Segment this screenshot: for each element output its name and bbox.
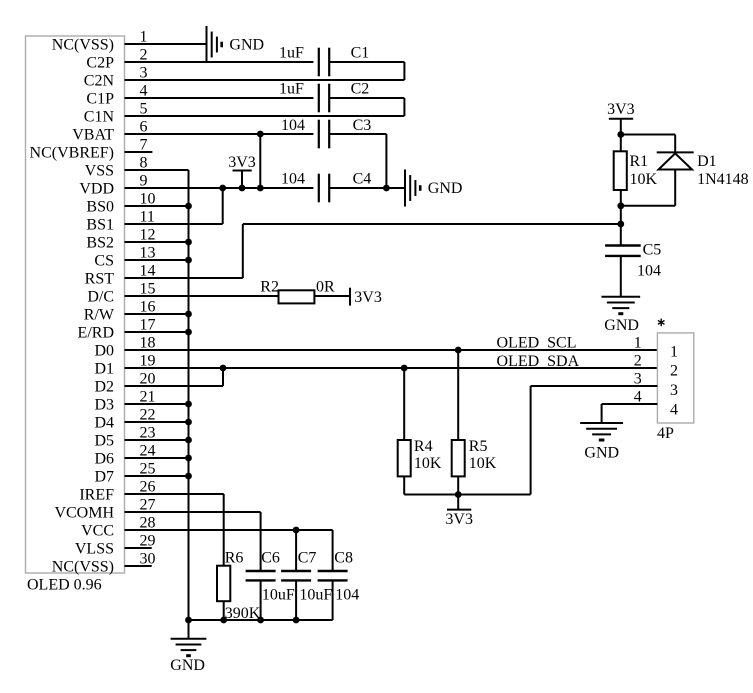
svg-text:GND: GND xyxy=(428,180,463,197)
svg-text:21: 21 xyxy=(140,389,156,406)
svg-text:C3: C3 xyxy=(353,117,372,134)
svg-text:D1: D1 xyxy=(94,360,114,377)
svg-text:C2: C2 xyxy=(351,81,370,98)
svg-text:C2P: C2P xyxy=(86,54,114,71)
svg-text:26: 26 xyxy=(140,479,156,496)
svg-text:10K: 10K xyxy=(414,455,442,472)
svg-text:1: 1 xyxy=(634,335,642,352)
svg-text:10: 10 xyxy=(140,191,156,208)
svg-text:18: 18 xyxy=(140,335,156,352)
svg-text:NC(VSS): NC(VSS) xyxy=(52,558,114,575)
svg-text:OLED SCL: OLED SCL xyxy=(497,335,577,352)
svg-text:VBAT: VBAT xyxy=(72,126,114,143)
svg-text:3V3: 3V3 xyxy=(607,101,635,118)
svg-text:2: 2 xyxy=(634,353,642,370)
svg-text:D5: D5 xyxy=(94,432,114,449)
svg-text:1: 1 xyxy=(670,343,678,360)
svg-text:GND: GND xyxy=(229,37,264,54)
svg-text:CS: CS xyxy=(94,252,114,269)
svg-text:24: 24 xyxy=(140,443,156,460)
svg-text:28: 28 xyxy=(140,515,156,532)
svg-text:GND: GND xyxy=(170,657,205,674)
svg-text:VDD: VDD xyxy=(79,180,114,197)
svg-text:1uF: 1uF xyxy=(279,45,304,62)
svg-text:OLED 0.96: OLED 0.96 xyxy=(27,577,102,594)
svg-text:1: 1 xyxy=(140,29,148,46)
svg-text:7: 7 xyxy=(140,137,148,154)
svg-text:1N4148: 1N4148 xyxy=(697,171,749,188)
svg-text:19: 19 xyxy=(140,353,156,370)
svg-text:3: 3 xyxy=(670,382,678,399)
svg-text:C6: C6 xyxy=(261,550,280,567)
svg-text:NC(VBREF): NC(VBREF) xyxy=(30,144,114,161)
svg-text:C5: C5 xyxy=(643,242,662,259)
svg-text:10uF: 10uF xyxy=(262,587,295,604)
svg-text:25: 25 xyxy=(140,461,156,478)
svg-text:D6: D6 xyxy=(94,450,114,467)
svg-text:C4: C4 xyxy=(353,171,372,188)
svg-text:8: 8 xyxy=(140,155,148,172)
svg-text:13: 13 xyxy=(140,245,156,262)
svg-text:5: 5 xyxy=(140,101,148,118)
svg-text:NC(VSS): NC(VSS) xyxy=(52,36,114,53)
svg-text:14: 14 xyxy=(140,263,156,280)
svg-text:20: 20 xyxy=(140,371,156,388)
svg-text:3V3: 3V3 xyxy=(228,154,256,171)
svg-text:D/C: D/C xyxy=(87,288,114,305)
svg-text:15: 15 xyxy=(140,281,156,298)
svg-text:VLSS: VLSS xyxy=(75,540,114,557)
svg-text:D2: D2 xyxy=(94,378,114,395)
svg-text:4: 4 xyxy=(140,83,148,100)
svg-text:D0: D0 xyxy=(94,342,114,359)
svg-text:OLED SDA: OLED SDA xyxy=(497,353,580,370)
svg-text:16: 16 xyxy=(140,299,156,316)
svg-text:R1: R1 xyxy=(630,153,649,170)
svg-text:10K: 10K xyxy=(469,455,497,472)
svg-text:9: 9 xyxy=(140,173,148,190)
svg-text:1uF: 1uF xyxy=(279,81,304,98)
svg-text:D4: D4 xyxy=(94,414,114,431)
svg-text:R6: R6 xyxy=(225,550,244,567)
svg-text:30: 30 xyxy=(140,551,156,568)
svg-text:C1: C1 xyxy=(351,45,370,62)
svg-text:4: 4 xyxy=(634,389,642,406)
svg-text:C1N: C1N xyxy=(84,108,115,125)
svg-text:3V3: 3V3 xyxy=(445,511,473,528)
svg-text:4: 4 xyxy=(670,402,678,419)
svg-text:R2: R2 xyxy=(260,279,279,296)
svg-text:R5: R5 xyxy=(469,438,488,455)
svg-text:3V3: 3V3 xyxy=(354,289,382,306)
svg-text:D7: D7 xyxy=(94,468,114,485)
svg-text:R4: R4 xyxy=(414,438,433,455)
svg-text:C1P: C1P xyxy=(86,90,114,107)
svg-text:104: 104 xyxy=(335,587,359,604)
svg-text:R/W: R/W xyxy=(84,306,115,323)
svg-text:D3: D3 xyxy=(94,396,114,413)
svg-text:0R: 0R xyxy=(316,279,335,296)
svg-text:BS1: BS1 xyxy=(86,216,114,233)
svg-text:C8: C8 xyxy=(334,550,353,567)
svg-text:104: 104 xyxy=(281,117,305,134)
svg-text:BS0: BS0 xyxy=(86,198,114,215)
svg-text:D1: D1 xyxy=(697,153,717,170)
svg-text:BS2: BS2 xyxy=(86,234,114,251)
svg-text:4P: 4P xyxy=(657,425,674,442)
svg-text:C2N: C2N xyxy=(84,72,115,89)
svg-text:29: 29 xyxy=(140,533,156,550)
svg-text:2: 2 xyxy=(670,363,678,380)
svg-text:VSS: VSS xyxy=(85,162,114,179)
svg-text:22: 22 xyxy=(140,407,156,424)
svg-text:GND: GND xyxy=(604,317,639,334)
svg-text:10K: 10K xyxy=(630,171,658,188)
svg-text:E/RD: E/RD xyxy=(78,324,114,341)
svg-text:3: 3 xyxy=(634,371,642,388)
svg-text:GND: GND xyxy=(584,444,619,461)
svg-text:23: 23 xyxy=(140,425,156,442)
svg-text:17: 17 xyxy=(140,317,156,334)
svg-text:6: 6 xyxy=(140,119,148,136)
svg-text:RST: RST xyxy=(85,270,115,287)
svg-text:C7: C7 xyxy=(298,550,317,567)
svg-text:27: 27 xyxy=(140,497,156,514)
svg-text:10uF: 10uF xyxy=(299,587,332,604)
svg-text:VCOMH: VCOMH xyxy=(54,504,114,521)
svg-text:IREF: IREF xyxy=(79,486,114,503)
svg-text:3: 3 xyxy=(140,65,148,82)
svg-text:2: 2 xyxy=(140,47,148,64)
svg-text:VCC: VCC xyxy=(81,522,114,539)
svg-text:12: 12 xyxy=(140,227,156,244)
svg-text:104: 104 xyxy=(281,171,305,188)
svg-text:11: 11 xyxy=(140,209,155,226)
svg-text:104: 104 xyxy=(637,262,661,279)
